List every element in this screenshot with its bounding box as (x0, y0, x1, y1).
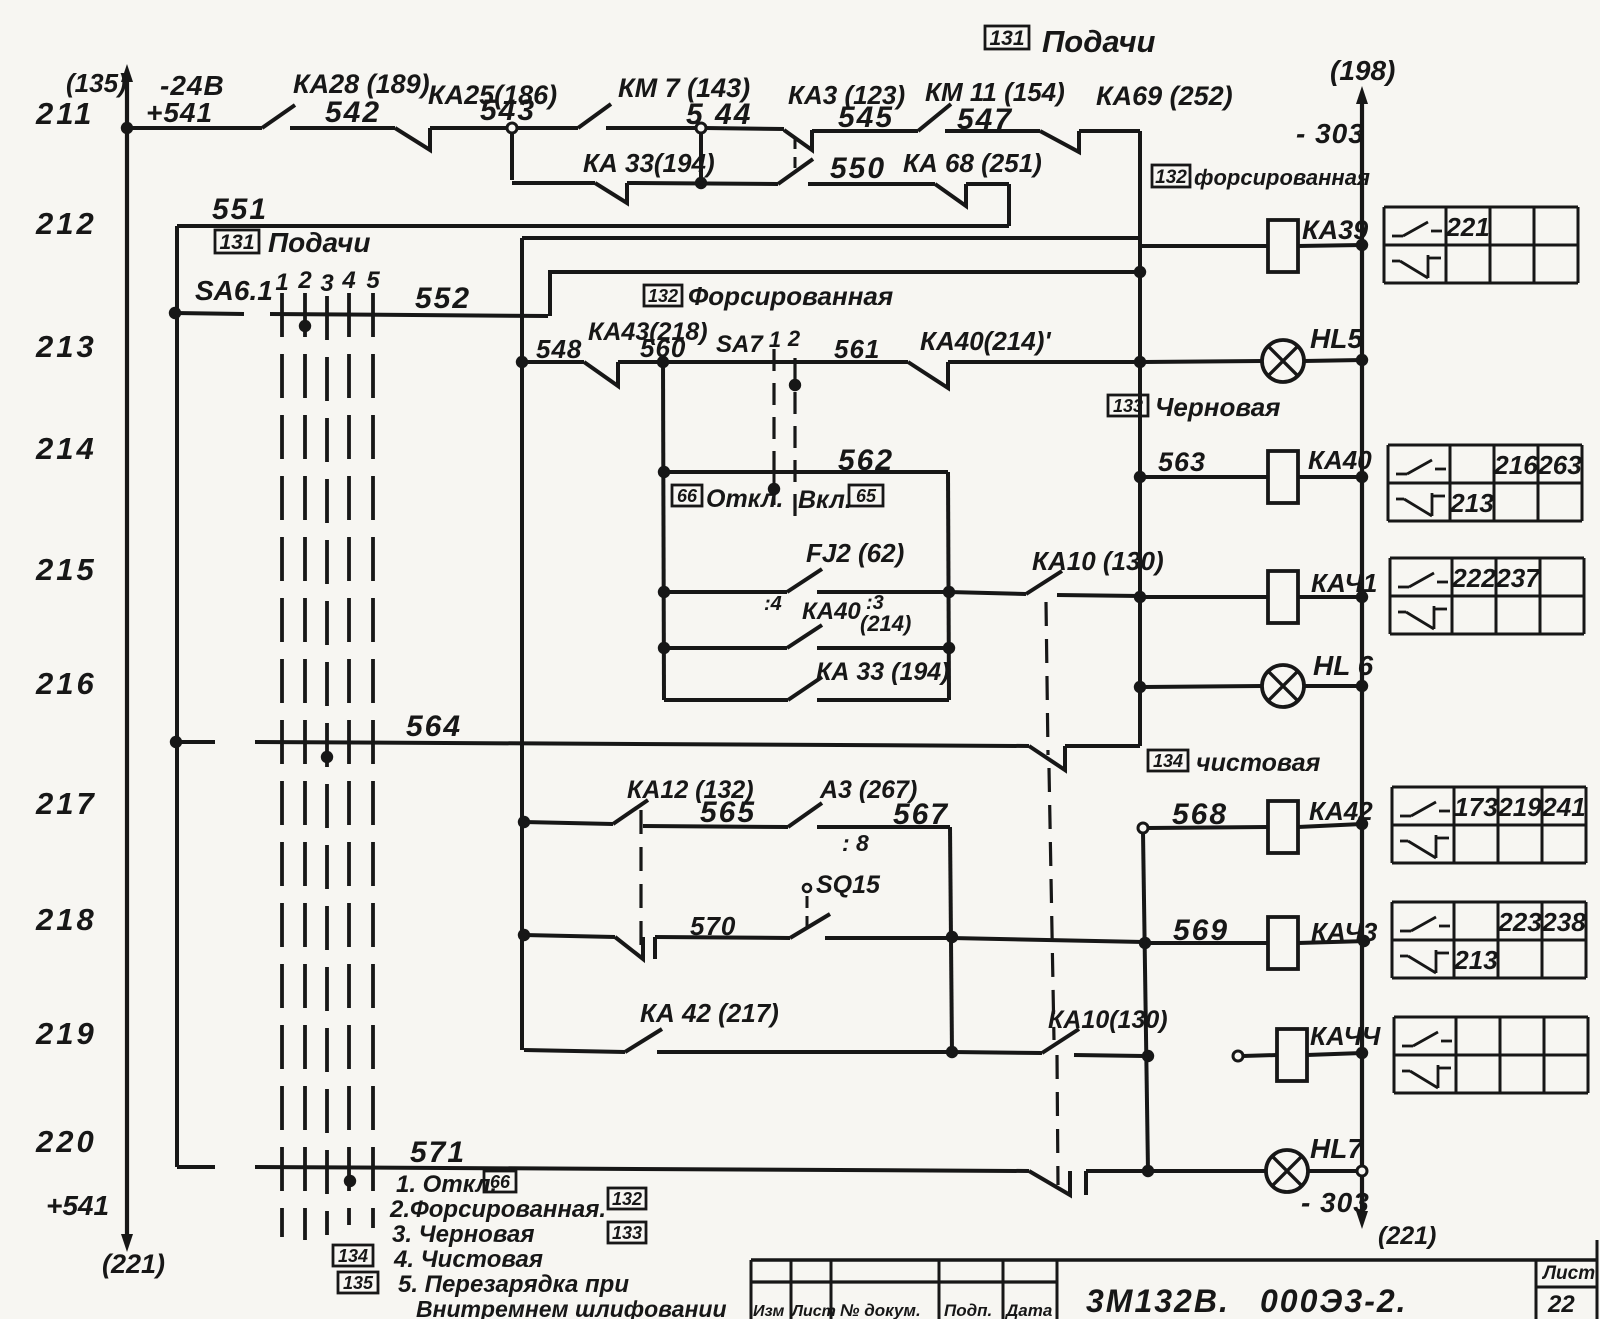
svg-text:211: 211 (35, 96, 94, 131)
svg-text:КА28 (189): КА28 (189) (293, 69, 430, 99)
svg-text:213: 213 (35, 329, 97, 364)
svg-text:HL 6: HL 6 (1313, 650, 1374, 681)
svg-text:173: 173 (1454, 792, 1498, 822)
svg-text:Подп.: Подп. (944, 1301, 992, 1319)
svg-text:219: 219 (1497, 792, 1542, 822)
svg-text:133: 133 (612, 1223, 642, 1243)
svg-text:5: 5 (366, 267, 380, 294)
svg-text:HL7: HL7 (1310, 1133, 1364, 1164)
svg-text:569: 569 (1173, 914, 1229, 947)
svg-text:+541: +541 (146, 97, 213, 128)
svg-text:563: 563 (1158, 447, 1206, 477)
svg-text:КА 33 (194): КА 33 (194) (816, 658, 949, 686)
svg-text:565: 565 (700, 796, 756, 829)
svg-text:(221): (221) (102, 1249, 165, 1279)
svg-text:1: 1 (275, 269, 288, 296)
svg-text:КА10(130): КА10(130) (1048, 1006, 1168, 1034)
svg-text:237: 237 (1495, 563, 1541, 593)
svg-text:214: 214 (35, 431, 97, 466)
svg-text:132: 132 (612, 1189, 642, 1209)
svg-text:КАЧ1: КАЧ1 (1311, 568, 1377, 598)
svg-text:HL5: HL5 (1310, 323, 1363, 354)
svg-text:5. Перезарядка при: 5. Перезарядка при (398, 1271, 629, 1298)
svg-text:263: 263 (1537, 450, 1582, 480)
svg-text:КА 33(194): КА 33(194) (583, 148, 715, 178)
svg-text:132: 132 (648, 286, 678, 306)
svg-text:Подачи: Подачи (1042, 24, 1156, 59)
svg-text:221: 221 (1445, 212, 1489, 242)
svg-text:132: 132 (1155, 167, 1187, 188)
svg-text:КА39: КА39 (1302, 215, 1368, 245)
svg-text:222: 222 (1451, 563, 1496, 593)
svg-text::4: :4 (764, 593, 782, 615)
svg-text:+541: +541 (46, 1190, 109, 1221)
svg-text:Черновая: Черновая (1155, 392, 1280, 422)
svg-text:КАЧ3: КАЧ3 (1311, 917, 1378, 947)
svg-text:567: 567 (893, 798, 949, 831)
svg-text:216: 216 (1493, 450, 1538, 480)
svg-text:3М132В.: 3М132В. (1086, 1283, 1230, 1319)
svg-text:SA7: SA7 (716, 331, 764, 358)
svg-text:2: 2 (297, 267, 312, 294)
svg-text:чистовая: чистовая (1196, 749, 1321, 777)
svg-text:571: 571 (410, 1136, 466, 1169)
svg-text:Подачи: Подачи (268, 227, 370, 258)
svg-text:219: 219 (35, 1016, 97, 1051)
svg-text:220: 220 (35, 1124, 97, 1159)
svg-text:КА40(214)ʹ: КА40(214)ʹ (920, 326, 1051, 356)
svg-text:543: 543 (480, 94, 536, 127)
svg-text:238: 238 (1541, 907, 1586, 937)
svg-text:Откл.: Откл. (706, 485, 783, 513)
svg-text:5 44: 5 44 (686, 98, 752, 131)
svg-text:КАЧЧ: КАЧЧ (1310, 1021, 1381, 1051)
svg-text:Внитремнем шлифовании: Внитремнем шлифовании (416, 1296, 727, 1319)
svg-text:4. Чистовая: 4. Чистовая (393, 1246, 543, 1273)
svg-text:550: 550 (830, 152, 886, 185)
svg-text:3: 3 (320, 270, 334, 297)
svg-text:66: 66 (677, 486, 698, 506)
svg-text:КА 42 (217): КА 42 (217) (640, 998, 779, 1028)
svg-text:КА42: КА42 (1309, 796, 1373, 826)
svg-text:212: 212 (35, 206, 97, 241)
svg-text:65: 65 (856, 486, 877, 506)
svg-text:552: 552 (415, 282, 471, 315)
svg-text:223: 223 (1497, 907, 1542, 937)
svg-text:213: 213 (1449, 488, 1494, 518)
svg-text:(221): (221) (1378, 1222, 1436, 1250)
svg-text:: 8: : 8 (842, 830, 869, 856)
svg-text:547: 547 (957, 103, 1013, 136)
svg-text:135: 135 (343, 1273, 374, 1293)
svg-text:3. Черновая: 3. Черновая (392, 1221, 535, 1248)
svg-text:131: 131 (989, 27, 1024, 50)
svg-text:Дата: Дата (1004, 1301, 1052, 1319)
svg-text:КА69 (252): КА69 (252) (1096, 81, 1233, 111)
svg-text:545: 545 (838, 101, 894, 134)
svg-text:134: 134 (338, 1246, 368, 1266)
svg-text:215: 215 (35, 552, 97, 587)
svg-text:1: 1 (769, 327, 781, 352)
svg-text:217: 217 (35, 786, 97, 821)
svg-text:134: 134 (1153, 751, 1183, 771)
svg-text:213: 213 (1453, 945, 1498, 975)
svg-text:216: 216 (35, 666, 97, 701)
svg-text:548: 548 (536, 334, 582, 364)
svg-text:КА10 (130): КА10 (130) (1032, 546, 1164, 576)
svg-text:КА40: КА40 (1308, 445, 1372, 475)
svg-text:(135): (135) (66, 68, 127, 98)
svg-text:(214): (214) (860, 611, 911, 636)
svg-text:133: 133 (1113, 396, 1143, 416)
svg-text:№ докум.: № докум. (840, 1301, 921, 1319)
svg-text:131: 131 (219, 231, 254, 254)
svg-text:- 303: - 303 (1301, 1187, 1370, 1218)
svg-text:2.Форсированная.: 2.Форсированная. (389, 1196, 606, 1223)
svg-text:4: 4 (341, 267, 355, 294)
svg-text:568: 568 (1172, 798, 1228, 831)
svg-text:66: 66 (490, 1172, 511, 1192)
svg-text:218: 218 (35, 902, 97, 937)
svg-text:FJ2 (62): FJ2 (62) (806, 538, 904, 568)
svg-text:(198): (198) (1330, 55, 1395, 86)
svg-text:Изм: Изм (753, 1303, 784, 1319)
svg-text:542: 542 (325, 96, 381, 129)
svg-text:КА40: КА40 (802, 598, 861, 625)
svg-text:КА 68 (251): КА 68 (251) (903, 148, 1042, 178)
svg-text:форсированная: форсированная (1194, 165, 1370, 190)
svg-text:Лист: Лист (1541, 1263, 1595, 1284)
svg-text:570: 570 (690, 911, 736, 941)
svg-text:564: 564 (406, 710, 462, 743)
svg-text:SA6.1: SA6.1 (195, 275, 273, 306)
svg-text:551: 551 (212, 193, 268, 226)
svg-text:SQ15: SQ15 (816, 871, 881, 899)
svg-text:Форсированная: Форсированная (688, 281, 893, 311)
svg-text:- 303: - 303 (1296, 118, 1365, 149)
svg-text:562: 562 (838, 444, 894, 477)
svg-text:560: 560 (640, 333, 686, 363)
svg-text:241: 241 (1541, 792, 1585, 822)
svg-text:000Э3-2.: 000Э3-2. (1260, 1283, 1408, 1319)
svg-text:1. Откл.: 1. Откл. (396, 1171, 497, 1198)
svg-text:22: 22 (1547, 1291, 1575, 1318)
svg-text:Лист: Лист (791, 1303, 836, 1319)
svg-text:2: 2 (787, 326, 801, 351)
svg-text:Вкл.: Вкл. (798, 486, 852, 514)
svg-text:561: 561 (834, 334, 880, 364)
